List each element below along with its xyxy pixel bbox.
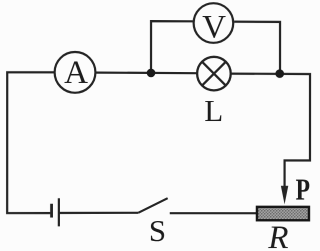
svg-text:S: S: [149, 213, 166, 248]
svg-text:P: P: [296, 172, 311, 207]
svg-text:L: L: [204, 93, 223, 128]
svg-text:V: V: [202, 9, 226, 45]
svg-text:R: R: [267, 220, 288, 251]
svg-text:A: A: [64, 55, 88, 91]
